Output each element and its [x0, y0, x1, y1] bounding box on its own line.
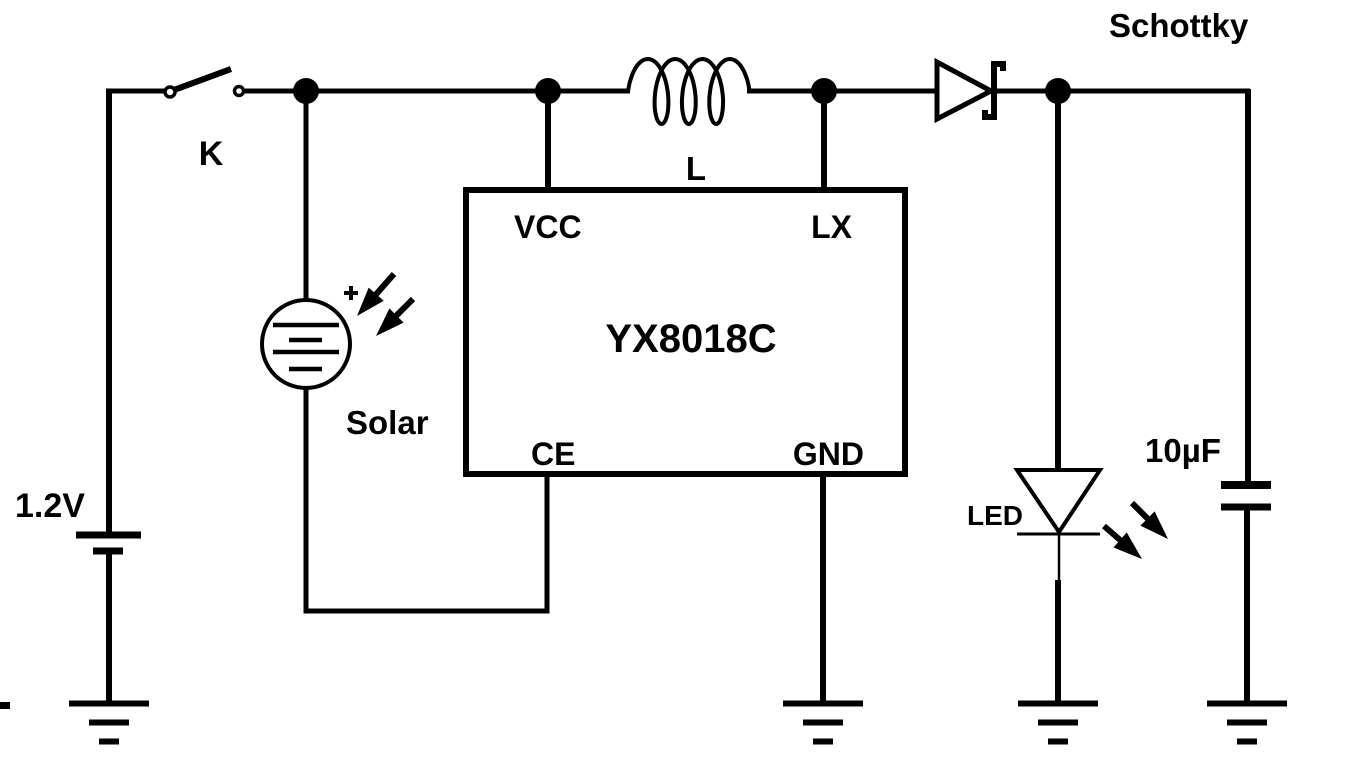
wire right vertical (capacitor branch)	[1245, 89, 1251, 482]
wire capacitor to ground	[1244, 510, 1250, 701]
battery B1 negative plate	[93, 548, 123, 555]
stray mark left edge	[0, 702, 10, 709]
svg-text:K: K	[199, 135, 224, 173]
svg-text:Schottky: Schottky	[1109, 7, 1249, 44]
ground (battery)	[69, 704, 149, 742]
ground (capacitor)	[1207, 704, 1287, 742]
wire solar drop	[304, 91, 309, 301]
solar cell body	[262, 300, 350, 388]
LED D2 thin lead	[1058, 534, 1061, 580]
wire inductor to diode	[747, 89, 937, 94]
LED D2 triangle	[1017, 470, 1100, 532]
ground (LED)	[1018, 704, 1098, 742]
capacitor C1 bottom plate	[1221, 504, 1271, 511]
wire left vertical (battery branch)	[106, 89, 112, 533]
svg-text:LX: LX	[811, 209, 853, 245]
node junction dot solar	[293, 78, 319, 104]
switch K right contact	[235, 87, 244, 96]
IC U1 YX8018C box	[466, 190, 905, 474]
inductor L coil	[628, 59, 750, 124]
svg-text:Solar: Solar	[346, 404, 429, 441]
wire LED to ground	[1055, 580, 1061, 701]
node junction dot VCC	[535, 78, 561, 104]
solar light arrow 2	[376, 299, 413, 336]
wire diode to top-right corner	[997, 89, 1250, 94]
LED light arrow 1	[1104, 526, 1142, 559]
svg-text:10µF: 10µF	[1145, 432, 1221, 469]
LED light arrow 2	[1132, 503, 1168, 539]
wire LX pin	[821, 91, 827, 192]
switch K lever	[174, 69, 231, 90]
solar light arrow 1	[357, 274, 394, 316]
svg-text:L: L	[686, 150, 706, 187]
wire GND pin	[820, 472, 826, 701]
wire switch to inductor	[245, 89, 630, 94]
wire solar to CE	[306, 386, 547, 611]
svg-text:YX8018C: YX8018C	[605, 317, 776, 361]
svg-text:LED: LED	[967, 500, 1023, 531]
svg-text:VCC: VCC	[514, 209, 582, 245]
solar cell plus sign	[344, 286, 358, 300]
svg-text:1.2V: 1.2V	[15, 487, 85, 525]
svg-text:GND: GND	[793, 436, 864, 472]
node junction dot LED	[1045, 78, 1071, 104]
solar cell plate lines	[273, 325, 339, 369]
wire VCC pin	[545, 91, 551, 192]
wire top-left horizontal	[106, 89, 166, 94]
diode D1 cathode bar with Schottky hooks	[985, 61, 1003, 120]
diode D1 Schottky triangle	[937, 62, 991, 119]
svg-text:CE: CE	[531, 436, 575, 472]
ground (IC GND)	[783, 704, 863, 742]
wire battery to ground	[106, 554, 112, 701]
switch K left contact	[165, 87, 175, 97]
battery B1 positive plate	[76, 532, 141, 539]
LED D2 cathode bar	[1017, 533, 1100, 536]
node junction dot LX	[811, 78, 837, 104]
capacitor C1 top plate	[1221, 481, 1271, 489]
wire LED drop	[1055, 91, 1061, 470]
